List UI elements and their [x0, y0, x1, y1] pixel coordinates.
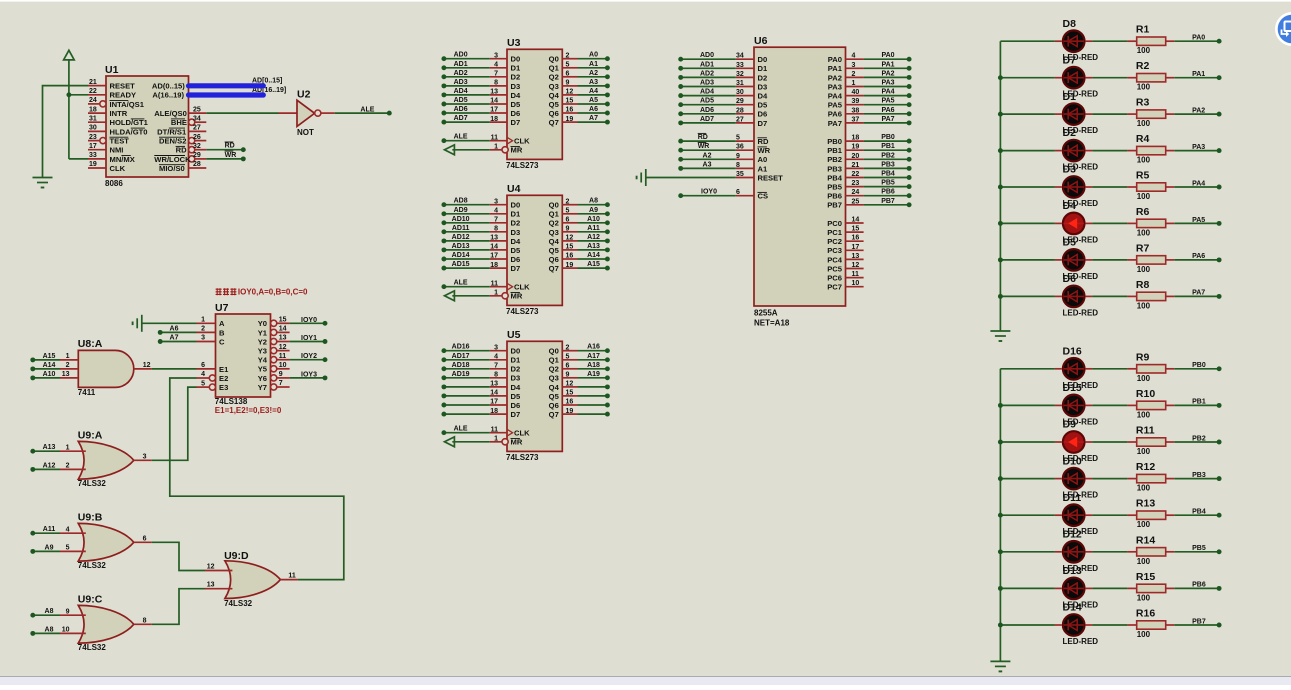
svg-text:32: 32	[193, 143, 201, 150]
svg-text:Q1: Q1	[549, 356, 560, 365]
wire A8	[33, 632, 60, 634]
svg-text:RD: RD	[225, 143, 235, 150]
svg-text:PB6: PB6	[881, 189, 895, 196]
svg-text:U8:A: U8:A	[78, 338, 103, 350]
node U5 D3	[441, 375, 446, 380]
wire U7 B (A6)	[160, 331, 196, 333]
svg-text:2: 2	[852, 71, 856, 78]
svg-text:D14: D14	[1063, 602, 1082, 614]
U5 pin 12 Q4	[562, 386, 577, 388]
svg-text:D4: D4	[1063, 200, 1077, 212]
U4 pin 19 Q7	[562, 267, 577, 269]
svg-text:AD2: AD2	[454, 70, 468, 77]
node PB5	[907, 184, 912, 189]
input terminal	[445, 145, 455, 155]
U6 pin 12 PC5	[846, 268, 864, 270]
svg-text:PA0: PA0	[1192, 35, 1205, 42]
svg-text:R11: R11	[1136, 425, 1155, 437]
svg-text:D2: D2	[511, 73, 521, 82]
svg-text:1: 1	[201, 317, 205, 324]
svg-text:Q4: Q4	[549, 91, 560, 100]
U9:C pin 10 input	[60, 632, 86, 634]
wire U1 ALE to U2	[206, 112, 278, 114]
svg-text:12: 12	[566, 89, 574, 96]
svg-text:D1: D1	[511, 210, 521, 219]
U9:A pin 2 input	[60, 468, 86, 470]
latch U5 74LS273 body	[507, 341, 562, 451]
svg-text:74LS32: 74LS32	[78, 643, 107, 652]
svg-text:D7: D7	[511, 118, 521, 127]
wire A14	[33, 368, 60, 370]
U5 pin 3 D0	[490, 350, 507, 352]
U1 pin 34 BHE	[189, 119, 195, 125]
svg-text:PB3: PB3	[881, 161, 895, 168]
svg-text:R4: R4	[1136, 133, 1150, 145]
wire A10	[33, 377, 60, 379]
LED D2 LED-RED	[1063, 140, 1085, 162]
svg-text:13: 13	[490, 235, 498, 242]
resistor R2 100	[1127, 77, 1136, 79]
svg-text:IOY0: IOY0	[301, 317, 317, 324]
node U3 Q6	[605, 111, 610, 116]
wire U6 AD5	[681, 104, 736, 106]
node U5 D0	[441, 348, 446, 353]
svg-text:Q4: Q4	[549, 383, 560, 392]
svg-text:Y2: Y2	[258, 337, 267, 346]
node PB0	[907, 139, 912, 144]
node PA3	[907, 84, 912, 89]
wire D13 to R15	[1092, 587, 1127, 589]
U7 pin 14 Y1	[271, 329, 277, 335]
svg-text:100: 100	[1137, 593, 1151, 602]
node U6 AD6	[678, 111, 683, 116]
U5 pin 9 Q3	[562, 377, 577, 379]
svg-text:PA7: PA7	[881, 116, 894, 123]
node PA5	[1217, 221, 1222, 226]
U1 pin 29 WR/LOCK	[189, 156, 195, 162]
svg-text:PA0: PA0	[881, 52, 894, 59]
U7 pin 12 Y3	[271, 348, 277, 354]
svg-text:1: 1	[852, 80, 856, 87]
wire U4 Q0	[578, 204, 608, 206]
U5 pin 15 Q5	[562, 395, 577, 397]
ground	[990, 660, 1010, 662]
U6 pin 20 PB2	[846, 158, 864, 160]
LED D11 cathode stub	[1086, 514, 1093, 516]
node U5 D4	[441, 384, 446, 389]
svg-text:AD13: AD13	[452, 243, 470, 250]
wire U6 PA6	[864, 113, 910, 115]
svg-text:13: 13	[279, 335, 287, 342]
svg-text:32: 32	[736, 71, 744, 78]
U6 pin 24 PB6	[846, 195, 864, 197]
U6 pin 4 PA0	[846, 58, 864, 60]
svg-text:Y4: Y4	[258, 356, 268, 365]
svg-text:Q1: Q1	[549, 64, 560, 73]
wire U3 D1	[444, 67, 490, 69]
svg-text:LED-RED: LED-RED	[1063, 637, 1099, 646]
svg-text:11: 11	[491, 134, 499, 141]
svg-text:13: 13	[207, 582, 215, 589]
node ALE	[387, 111, 392, 116]
U1 pin 25 ALE/QS0	[189, 112, 207, 114]
svg-text:16: 16	[852, 235, 860, 242]
svg-text:IOY0: IOY0	[701, 189, 717, 196]
svg-text:PA3: PA3	[1192, 144, 1205, 151]
svg-text:U1: U1	[105, 64, 119, 76]
LED D16 cathode stub	[1086, 368, 1093, 370]
wire A12	[33, 468, 60, 470]
node U3 Q2	[605, 74, 610, 79]
LED D7 cathode stub	[1086, 77, 1093, 79]
svg-text:PA5: PA5	[881, 98, 894, 105]
svg-text:74LS273: 74LS273	[506, 161, 539, 170]
LED D1 LED-RED	[1063, 103, 1085, 125]
svg-text:3: 3	[494, 344, 498, 351]
wire R4 to PA3	[1174, 150, 1219, 152]
svg-text:E3: E3	[219, 383, 228, 392]
svg-text:PA5: PA5	[1192, 217, 1205, 224]
svg-text:D5: D5	[1063, 237, 1077, 249]
svg-text:7411: 7411	[78, 388, 96, 397]
LED D11 LED-RED	[1063, 504, 1085, 526]
svg-text:Q1: Q1	[549, 210, 560, 219]
node U5 D7	[441, 412, 446, 417]
U3 pin 11 CLK	[490, 140, 507, 142]
svg-text:9: 9	[279, 371, 283, 378]
svg-text:R12: R12	[1136, 461, 1155, 473]
svg-text:Q7: Q7	[549, 118, 559, 127]
LED D4 anode stub	[1055, 222, 1062, 224]
svg-text:34: 34	[193, 115, 201, 122]
wire U9:C out to U9:D pin13	[152, 589, 205, 625]
wire U1 RD	[206, 149, 243, 151]
svg-text:ALE/QS0: ALE/QS0	[154, 109, 187, 118]
U5 pin 5 Q1	[562, 359, 577, 361]
junction bus PA row 3	[998, 148, 1003, 153]
svg-text:9: 9	[736, 153, 740, 160]
LED group PB vertical bus wire	[999, 369, 1001, 662]
svg-text:AD15: AD15	[452, 261, 470, 268]
node U5 Q7	[605, 412, 610, 417]
U4 pin 5 Q1	[562, 213, 577, 215]
svg-text:1: 1	[66, 353, 70, 360]
svg-text:Q2: Q2	[549, 73, 559, 82]
svg-text:Q2: Q2	[549, 219, 559, 228]
svg-text:D2: D2	[511, 219, 521, 228]
node U6 AD0	[678, 57, 683, 62]
node PB4	[907, 175, 912, 180]
node A6	[158, 330, 163, 335]
node PA0	[1217, 39, 1222, 44]
U6 pin 22 PB4	[846, 177, 864, 179]
junction bus PB row 5	[998, 549, 1003, 554]
svg-text:D11: D11	[1063, 492, 1082, 504]
LED D15 anode stub	[1055, 404, 1062, 406]
U5 pin 2 Q0	[562, 350, 577, 352]
wire U6 PA1	[864, 67, 910, 69]
wire U4 Q2	[578, 222, 608, 224]
U4 pin 18 D7	[490, 267, 507, 269]
LED D2 cathode stub	[1086, 150, 1093, 152]
node A8	[30, 613, 35, 618]
svg-text:U2: U2	[297, 89, 311, 101]
wire A8	[33, 614, 60, 616]
wire U4 Q6	[578, 258, 608, 260]
svg-text:D4: D4	[511, 237, 521, 246]
svg-text:D7: D7	[1063, 54, 1077, 66]
svg-text:6: 6	[736, 189, 740, 196]
U4 pin 15 Q5	[562, 249, 577, 251]
node U6 AD2	[678, 75, 683, 80]
svg-text:12: 12	[566, 235, 574, 242]
wire D7 to R2	[1092, 77, 1127, 79]
svg-text:19: 19	[89, 161, 97, 168]
wire U6 PB7	[864, 204, 910, 206]
wire U6 PA3	[864, 86, 910, 88]
svg-text:Y5: Y5	[258, 365, 268, 374]
svg-text:AD0: AD0	[700, 52, 714, 59]
svg-text:100: 100	[1137, 557, 1151, 566]
wire U5 MR	[452, 441, 490, 443]
svg-text:Y1: Y1	[258, 328, 268, 337]
LED D5 LED-RED	[1063, 249, 1085, 271]
wire U6 AD0	[681, 58, 736, 60]
wire power to MN/MX	[68, 60, 70, 159]
wire bus to D12	[1000, 551, 1055, 553]
junction bus PA row 2	[998, 112, 1003, 117]
LED D6 cathode stub	[1086, 295, 1093, 297]
svg-text:PB1: PB1	[1192, 399, 1206, 406]
U7 pin 3 C	[197, 341, 216, 343]
U6 pin 25 PB7	[846, 204, 864, 206]
svg-text:R6: R6	[1136, 206, 1150, 218]
svg-text:PC3: PC3	[827, 246, 842, 255]
node PA3	[1217, 148, 1222, 153]
U1 pin 24 INTA/QS1	[88, 103, 100, 105]
svg-text:100: 100	[1137, 410, 1151, 419]
node U4 D2	[441, 220, 446, 225]
U3 pin 7 D2	[490, 76, 507, 78]
svg-text:3: 3	[494, 52, 498, 59]
input terminal	[445, 437, 455, 447]
svg-text:CS: CS	[758, 192, 769, 201]
svg-text:A9: A9	[45, 544, 54, 551]
svg-text:PA2: PA2	[881, 70, 894, 77]
wire IOY0	[290, 322, 325, 324]
node U3 Q3	[605, 83, 610, 88]
svg-text:PA3: PA3	[828, 82, 842, 91]
LED D14 LED-RED	[1063, 614, 1085, 636]
node U3 D3	[441, 83, 446, 88]
svg-text:A0: A0	[589, 52, 598, 59]
wire U5 D5	[444, 395, 490, 397]
node PA7	[1217, 294, 1222, 299]
svg-text:PB4: PB4	[827, 173, 843, 182]
svg-text:NET=A18: NET=A18	[754, 319, 790, 328]
wire U3 Q4	[578, 94, 608, 96]
node U5 Q1	[605, 357, 610, 362]
svg-text:Q3: Q3	[549, 82, 559, 91]
svg-text:ALE: ALE	[454, 280, 468, 287]
node A12	[30, 467, 35, 472]
svg-text:74LS32: 74LS32	[78, 561, 107, 570]
U1 pin 31 HOLD/GT1	[88, 121, 106, 123]
svg-text:19: 19	[852, 144, 860, 151]
U9:B pin 6 output	[134, 541, 152, 543]
wire D4 to R6	[1092, 222, 1127, 224]
node U4 ALE	[441, 284, 446, 289]
U5 pin 4 D1	[490, 359, 507, 361]
svg-text:100: 100	[1137, 484, 1151, 493]
svg-text:U3: U3	[507, 37, 521, 49]
svg-text:PB1: PB1	[881, 143, 895, 150]
svg-text:AD9: AD9	[454, 207, 468, 214]
U5 pin 7 D2	[490, 368, 507, 370]
U8:A pin 13 input A10	[60, 377, 78, 379]
wire U6 RD	[681, 140, 736, 142]
svg-text:8: 8	[494, 226, 498, 233]
wire bus to D2	[1000, 150, 1055, 152]
svg-text:14: 14	[490, 244, 498, 251]
U5 pin 16 Q6	[562, 404, 577, 406]
svg-text:100: 100	[1137, 265, 1151, 274]
wire U6 PB5	[864, 186, 910, 188]
wire R14 to PB5	[1174, 551, 1219, 553]
node PA4	[907, 93, 912, 98]
node U3 D5	[441, 102, 446, 107]
node PB5	[1217, 549, 1222, 554]
svg-text:100: 100	[1137, 119, 1151, 128]
svg-text:5: 5	[566, 207, 570, 214]
floating blue share button	[1275, 12, 1291, 46]
resistor R10 100	[1127, 404, 1136, 406]
svg-text:AD14: AD14	[452, 252, 470, 259]
node PB6	[907, 193, 912, 198]
node U3 D0	[441, 56, 446, 61]
svg-text:36: 36	[736, 144, 744, 151]
bottom scrollbar strip	[0, 677, 1291, 686]
svg-text:2: 2	[566, 344, 570, 351]
svg-text:AD11: AD11	[452, 225, 470, 232]
svg-text:NOT: NOT	[297, 128, 314, 137]
svg-text:Q6: Q6	[549, 401, 559, 410]
svg-text:D5: D5	[511, 246, 521, 255]
svg-text:PC4: PC4	[827, 255, 843, 264]
svg-text:100: 100	[1137, 83, 1151, 92]
LED D9 lit LED-RED	[1063, 431, 1085, 453]
svg-text:E1: E1	[219, 365, 229, 374]
svg-text:U5: U5	[507, 329, 521, 341]
svg-text:TEST: TEST	[110, 137, 130, 146]
U5 pin 18 D7	[490, 413, 507, 415]
svg-text:A6: A6	[589, 106, 598, 113]
wire U5 Q2	[578, 368, 608, 370]
node U3 Q5	[605, 102, 610, 107]
wire bus to D7	[1000, 77, 1055, 79]
wire U6 WR	[681, 149, 736, 151]
U6 pin 21 PB3	[846, 167, 864, 169]
svg-text:21: 21	[89, 79, 97, 86]
U6 pin 5 RD	[736, 140, 754, 142]
U1 pin 30 HLDA/GT0	[88, 130, 106, 132]
LED D3 cathode stub	[1086, 186, 1093, 188]
svg-text:100: 100	[1137, 630, 1151, 639]
wire U6 PB6	[864, 195, 910, 197]
svg-text:A13: A13	[587, 243, 600, 250]
junction bus PA row 7	[998, 294, 1003, 299]
svg-text:CLK: CLK	[514, 137, 530, 146]
svg-text:4: 4	[201, 371, 205, 378]
U1 pin 32 RD	[189, 147, 195, 153]
wire bus to D6	[1000, 295, 1055, 297]
U1 pin 17 NMI	[88, 149, 106, 151]
svg-text:PB4: PB4	[1192, 509, 1206, 516]
node U5 D1	[441, 357, 446, 362]
svg-text:13: 13	[62, 371, 70, 378]
svg-text:PB7: PB7	[827, 201, 842, 210]
U6 pin 40 PA4	[846, 95, 864, 97]
OR gate U9:B 74LS32	[78, 523, 134, 561]
svg-text:PB6: PB6	[1192, 582, 1206, 589]
U5 pin 8 D3	[490, 377, 507, 379]
svg-text:A17: A17	[587, 353, 600, 360]
U6 pin 6 CS	[736, 195, 754, 197]
svg-text:4: 4	[494, 353, 498, 360]
svg-text:13: 13	[852, 253, 860, 260]
wire bus to D4	[1000, 222, 1055, 224]
svg-text:AD18: AD18	[452, 362, 470, 369]
node PA2	[907, 75, 912, 80]
svg-text:7: 7	[494, 217, 498, 224]
U3 pin 3 D0	[490, 58, 507, 60]
svg-text:D1: D1	[1063, 91, 1077, 103]
U9:A pin 1 input	[60, 450, 86, 452]
node U4 Q5	[605, 247, 610, 252]
wire U6 AD4	[681, 95, 736, 97]
AND gate U8:A 7411	[78, 350, 134, 387]
svg-text:PB0: PB0	[881, 134, 895, 141]
node U5 Q6	[605, 403, 610, 408]
svg-text:25: 25	[852, 198, 860, 205]
svg-text:3: 3	[852, 62, 856, 69]
svg-text:R1: R1	[1136, 24, 1150, 36]
LED D2 anode stub	[1055, 150, 1062, 152]
U6 pin 27 D7	[736, 122, 754, 124]
LED D1 cathode stub	[1086, 113, 1093, 115]
junction bus PB row 4	[998, 513, 1003, 518]
node U6 WR	[678, 148, 683, 153]
wire A9	[33, 550, 60, 552]
wire U6 PA2	[864, 76, 910, 78]
svg-text:15: 15	[279, 317, 287, 324]
svg-text:6: 6	[201, 362, 205, 369]
svg-text:11: 11	[491, 426, 499, 433]
svg-text:MR: MR	[511, 438, 523, 447]
wire D11 to R13	[1092, 514, 1127, 516]
svg-text:PB6: PB6	[827, 192, 842, 201]
U2 output stub	[321, 112, 335, 114]
wire U3 D3	[444, 85, 490, 87]
svg-text:A10: A10	[43, 371, 56, 378]
wire D8 to R1	[1092, 40, 1127, 42]
wire U5 D7	[444, 413, 490, 415]
node PB6	[1217, 586, 1222, 591]
svg-text:6: 6	[566, 363, 570, 370]
svg-text:PB2: PB2	[881, 152, 895, 159]
U4 pin 13 D4	[490, 240, 507, 242]
wire U4 D7	[444, 267, 490, 269]
